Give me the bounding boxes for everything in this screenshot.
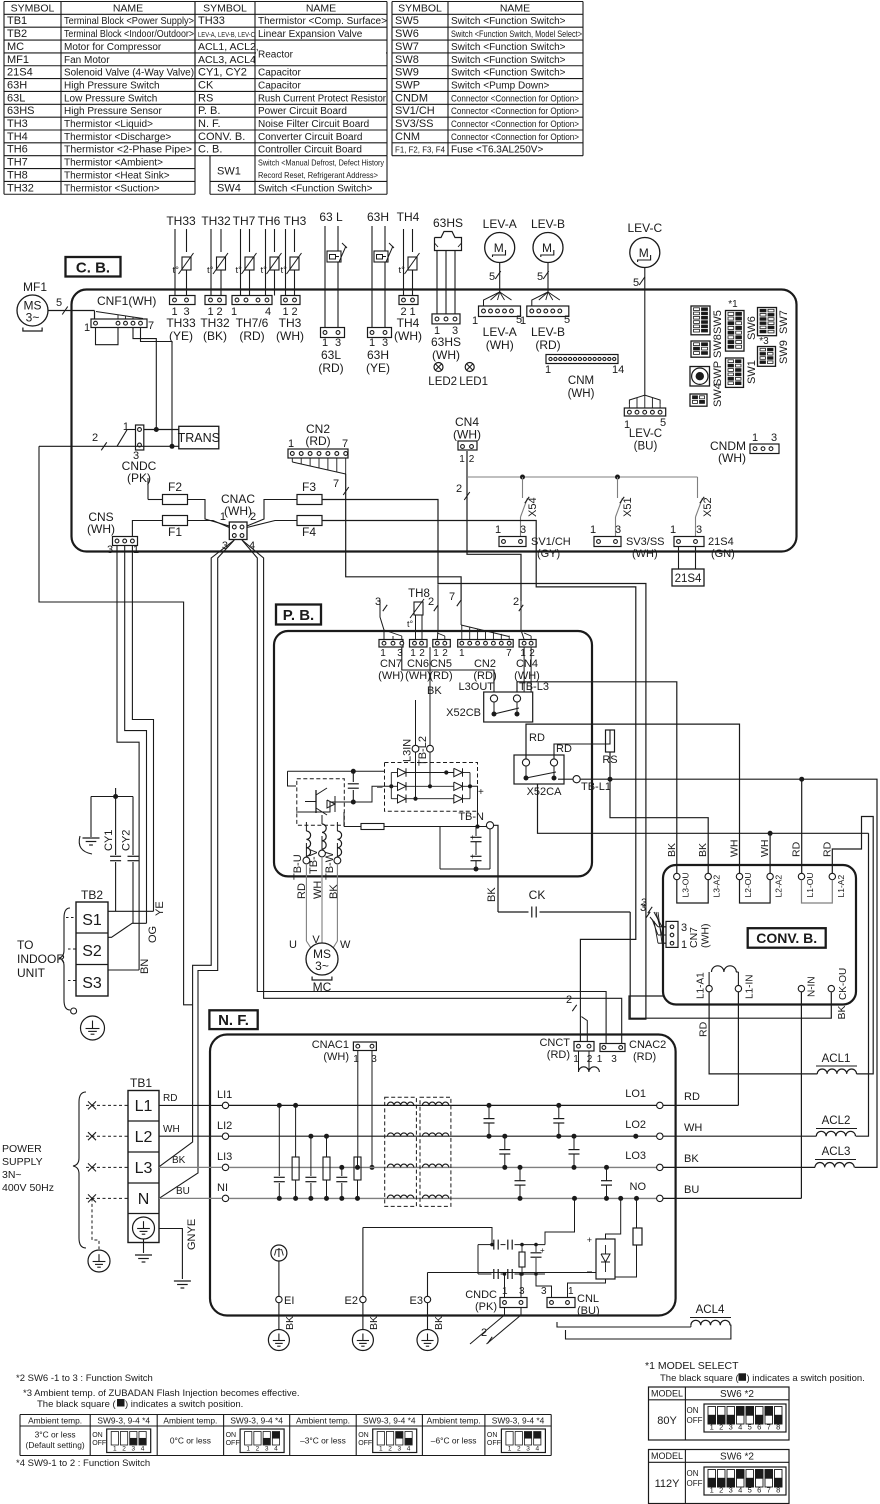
svg-text:3: 3 [615,524,621,536]
svg-text:) indicates a switch position.: ) indicates a switch position. [747,1373,865,1384]
svg-text:1: 1 [670,524,676,536]
svg-text:Connector <Connection for Opti: Connector <Connection for Option> [451,119,579,129]
svg-text:1: 1 [590,524,596,536]
svg-text:TB2: TB2 [81,888,103,902]
terminal CK-OU [828,985,834,991]
svg-text:1: 1 [568,1286,574,1297]
svg-text:2: 2 [256,1446,260,1453]
wires CN4 P.B. to relay coil [523,647,525,692]
svg-text:WH: WH [759,840,771,858]
svg-text:(YE): (YE) [169,329,193,343]
svg-text:t°: t° [281,265,288,276]
svg-text:3~: 3~ [315,959,329,973]
svg-text:CK-OU: CK-OU [838,968,849,1000]
svg-text:Noise Filter Circuit Board: Noise Filter Circuit Board [258,119,369,130]
junction dots NF right [633,1134,638,1139]
N.F. board outline [210,1035,676,1316]
svg-text:(WH): (WH) [224,504,252,518]
svg-text:Converter Circuit Board: Converter Circuit Board [258,132,362,143]
svg-text:5: 5 [489,271,495,283]
svg-text:3: 3 [265,1446,269,1453]
svg-text:OFF: OFF [687,1479,703,1488]
wire ACL3 riser [802,779,877,1167]
svg-text:SW8: SW8 [395,54,419,66]
svg-text:7: 7 [767,1486,771,1495]
svg-text:LEV-B: LEV-B [531,217,565,231]
svg-text:SW5: SW5 [712,310,724,334]
svg-text:3: 3 [696,524,702,536]
svg-text:WH: WH [163,1124,180,1135]
wires CNDC bundle [504,1308,506,1316]
svg-text:CNAC2: CNAC2 [629,1039,666,1051]
svg-text:LI1: LI1 [217,1089,232,1101]
svg-text:RD: RD [529,732,545,744]
common mode choke 2 [420,1097,451,1206]
svg-text:3: 3 [611,1054,617,1065]
svg-text:X52CA: X52CA [527,786,563,798]
svg-text:BK: BK [666,843,678,857]
svg-text:SW7: SW7 [395,41,419,53]
svg-text:(BU): (BU) [577,1305,600,1317]
svg-text:MF1: MF1 [7,54,29,66]
svg-text:BK: BK [328,884,340,899]
relay contact X54 [522,477,524,498]
svg-text:E3: E3 [410,1295,423,1307]
svg-text:3: 3 [640,902,646,914]
svg-text:TB-L3: TB-L3 [519,681,549,693]
common mode choke 1 [385,1097,417,1206]
svg-text:N. F.: N. F. [198,118,221,130]
svg-text:63 L: 63 L [319,210,343,224]
svg-text:SW5: SW5 [395,15,419,27]
svg-text:L1: L1 [135,1098,153,1115]
svg-text:TB-U: TB-U [292,854,304,880]
terminal L2-OU [736,873,742,879]
svg-text:CN7: CN7 [380,658,402,670]
svg-text:L3-OU: L3-OU [680,872,690,897]
wire 2-core to CNDC [39,445,179,447]
svg-text:(Default setting): (Default setting) [26,1440,85,1450]
svg-text:TH8: TH8 [408,588,430,600]
wire L1-A1 to ACL1 [709,992,817,1074]
svg-text:NO: NO [630,1181,647,1193]
svg-text:Solenoid Valve (4-Way Valve): Solenoid Valve (4-Way Valve) [64,68,194,79]
line LI2 [229,1135,657,1137]
ground TB2 [71,1008,77,1014]
svg-text:OFF: OFF [226,1440,240,1447]
svg-text:(RD): (RD) [305,434,330,448]
svg-text:CK: CK [529,888,546,902]
wires S1 S2 S3 [108,910,154,912]
svg-text:BK: BK [368,1316,380,1330]
svg-text:TB1: TB1 [7,15,27,27]
svg-text:1: 1 [472,315,478,327]
svg-text:SYMBOL: SYMBOL [11,2,55,14]
svg-text:SW9-3, 9-4 *4: SW9-3, 9-4 *4 [492,1415,545,1425]
wire CY common [91,796,133,798]
svg-text:0°C or less: 0°C or less [170,1436,211,1446]
svg-text:(RD): (RD) [429,670,452,682]
svg-text:TB-W: TB-W [324,851,336,880]
svg-text:Linear Expansion Valve: Linear Expansion Valve [258,29,363,40]
svg-text:CN2: CN2 [474,658,496,670]
thermistor TH6 symbol [265,229,267,296]
svg-text:CNF1(WH): CNF1(WH) [97,294,156,308]
terminal N-IN [798,985,804,991]
svg-text:TB2: TB2 [7,28,27,40]
dip switch SW8 [691,341,710,357]
svg-text:F2: F2 [168,480,182,494]
svg-text:2: 2 [388,1446,392,1453]
svg-text:–: – [587,1266,592,1276]
svg-text:(BU): (BU) [634,441,658,453]
resistor to NO [633,1228,642,1245]
circuit breaker contacts [86,1104,128,1106]
svg-text:SW9: SW9 [395,67,419,79]
svg-text:1: 1 [508,1446,512,1453]
fuse F4 [297,516,322,526]
svg-text:TH3: TH3 [284,214,307,228]
svg-text:WH: WH [729,840,741,858]
svg-text:400V 50Hz: 400V 50Hz [2,1182,54,1194]
svg-text:(PK): (PK) [475,1301,497,1313]
svg-text:Switch <Function Switch>: Switch <Function Switch> [451,55,566,66]
svg-text:3: 3 [771,432,777,444]
svg-text:1: 1 [459,454,465,465]
svg-text:6: 6 [757,1423,761,1432]
svg-text:1: 1 [353,1054,359,1065]
svg-text:CY2: CY2 [121,830,133,851]
svg-text:RS: RS [198,92,213,104]
svg-text:6: 6 [757,1486,761,1495]
svg-text:(WH): (WH) [405,670,431,682]
svg-text:2: 2 [719,1423,723,1432]
C.B. board outline [72,290,797,552]
terminal EI [278,1261,280,1296]
svg-text:ON: ON [358,1432,369,1439]
connector CN6 on P.B. [410,640,428,648]
wire ACL4 return [566,1325,731,1339]
dip switch SW1 [726,358,744,387]
svg-text:4: 4 [141,1446,145,1453]
svg-text:BU: BU [176,1186,190,1197]
svg-text:LI2: LI2 [217,1120,232,1132]
svg-text:TH33: TH33 [198,15,225,27]
svg-text:Record Reset, Refrigerant Addr: Record Reset, Refrigerant Address> [258,171,378,180]
thermistor TH33 symbol [174,229,176,296]
svg-text:t°: t° [173,265,180,276]
svg-text:SW6 *2: SW6 *2 [720,1389,754,1400]
svg-text:3: 3 [526,1446,530,1453]
svg-text:Thermistor <Ambient>: Thermistor <Ambient> [64,158,163,169]
terminal L1-IN [735,985,741,991]
svg-text:(YE): (YE) [366,361,390,375]
svg-text:1: 1 [495,524,501,536]
svg-text:LEV-B: LEV-B [531,325,565,339]
svg-text:CONV. B.: CONV. B. [198,131,245,143]
svg-text:Switch <Function Switch, Model: Switch <Function Switch, Model Select> [451,29,582,39]
svg-text:2: 2 [566,994,572,1006]
svg-text:CNL: CNL [577,1293,599,1305]
svg-text:LED1: LED1 [459,376,488,388]
wire ACL1 to L1-A2 [832,817,873,1074]
svg-text:Low Pressure Switch: Low Pressure Switch [64,93,157,104]
svg-text:(WH): (WH) [700,924,712,949]
svg-text:TB-L1: TB-L1 [581,781,611,793]
svg-text:NAME: NAME [113,2,143,14]
wires CNS to TB2 [132,546,153,912]
svg-text:5: 5 [537,271,543,283]
connector CN2 on P.B. [458,640,514,648]
ground E3 [427,1303,429,1330]
svg-text:ACL1: ACL1 [822,1053,851,1065]
svg-text:MODEL: MODEL [651,1389,683,1399]
svg-text:OFF: OFF [358,1440,372,1447]
svg-text:TH3: TH3 [7,118,28,130]
svg-text:F1, F2, F3, F4: F1, F2, F3, F4 [395,146,446,155]
svg-text:LO1: LO1 [625,1088,646,1100]
svg-text:F4: F4 [302,525,316,539]
svg-text:TB-N: TB-N [458,811,484,823]
svg-text:63L: 63L [321,348,341,362]
LED2 [434,363,443,372]
capacitor main [352,771,354,782]
svg-text:+: + [587,1235,592,1245]
svg-text:SW6: SW6 [395,28,419,40]
svg-text:ON: ON [487,1432,498,1439]
wire LO3 to ACL3 [663,1166,815,1168]
svg-text:SW9-3, 9-4 *4: SW9-3, 9-4 *4 [230,1415,283,1425]
svg-text:Switch <Pump Down>: Switch <Pump Down> [451,80,550,91]
thermistor TH7 symbol [240,229,242,296]
LED1 [465,363,474,372]
wires CNAC pins 3-4 to CNAC2 [242,540,606,1044]
svg-text:TH8: TH8 [7,169,28,181]
svg-text:7: 7 [148,320,154,332]
connector LEV-C(BU) [624,408,665,416]
svg-text:L1-IN: L1-IN [745,975,756,999]
svg-text:ON: ON [226,1432,237,1439]
svg-text:P. B.: P. B. [198,105,220,117]
svg-text:ON: ON [687,1469,699,1478]
svg-text:7: 7 [506,648,512,659]
P.B. label [276,605,321,625]
svg-text:Controller Circuit Board: Controller Circuit Board [258,145,362,156]
svg-text:Thermistor <Heat Sink>: Thermistor <Heat Sink> [64,170,170,181]
dip switch SW4 [690,394,707,406]
svg-text:BK: BK [433,1316,445,1330]
wires CNF1 to TRANS area [96,328,119,345]
svg-text:1: 1 [133,544,139,556]
svg-text:(WH): (WH) [323,1051,349,1063]
svg-text:3: 3 [681,922,687,934]
svg-text:7: 7 [767,1423,771,1432]
svg-text:63HS: 63HS [431,335,461,349]
svg-text:3N~: 3N~ [2,1169,22,1181]
svg-text:N: N [138,1191,150,1208]
resistor on negative rail [361,824,384,830]
svg-text:–: – [377,782,383,793]
wires CNAC pins 3-4 to TB1 [159,540,234,1167]
svg-text:N-IN: N-IN [807,976,818,997]
svg-text:1: 1 [545,364,551,376]
brace TB2 [59,908,70,1010]
svg-text:TH4: TH4 [397,316,420,330]
svg-text:F1: F1 [168,525,182,539]
svg-text:*3: *3 [759,336,769,347]
connector TH3(WH) [281,296,300,305]
svg-text:LEV-A: LEV-A [483,217,517,231]
wire LO2 to ACL2 [663,1135,816,1137]
svg-text:2: 2 [719,1486,723,1495]
svg-text:1: 1 [459,648,465,659]
ground E2 [362,1303,364,1330]
svg-text:(WH): (WH) [718,451,746,465]
svg-text:+: + [478,787,484,798]
svg-text:2: 2 [469,454,475,465]
solenoid valve 21S4 box [678,547,680,570]
terminal pair bracket L2 [740,880,771,903]
svg-text:(WH): (WH) [632,548,658,560]
ground below TB1 [143,1239,145,1253]
svg-text:4: 4 [407,1446,411,1453]
symbol table column 2 [195,1,387,3]
svg-text:Ambient temp.: Ambient temp. [163,1415,217,1425]
svg-text:5: 5 [748,1486,752,1495]
svg-text:SV1/CH: SV1/CH [395,105,435,117]
svg-text:U: U [289,939,297,951]
svg-text:NAME: NAME [306,2,336,14]
thermistor TH3 symbol [285,229,287,296]
connector 63L(RD) [321,328,345,338]
terminal L1-OU [798,873,804,879]
svg-text:1: 1 [288,438,294,450]
svg-text:Power Circuit Board: Power Circuit Board [258,106,347,117]
svg-text:L2-A2: L2-A2 [774,875,784,898]
thermistor TH32 symbol [210,229,212,296]
svg-text:RD: RD [556,743,572,755]
svg-text:1: 1 [379,1446,383,1453]
svg-text:(PK): (PK) [127,471,151,485]
svg-text:Thermistor <Liquid>: Thermistor <Liquid> [64,119,153,130]
svg-text:*4 SW9-1 to 2 : Function Swit: *4 SW9-1 to 2 : Function Switch [16,1458,150,1469]
svg-text:14: 14 [612,364,624,376]
svg-text:L1-A2: L1-A2 [836,875,846,898]
svg-text:Switch <Function Switch>: Switch <Function Switch> [451,42,566,53]
svg-text:ON: ON [92,1432,103,1439]
CONV.B. board outline [663,865,856,1005]
svg-text:SWP: SWP [395,79,420,91]
svg-text:SW4: SW4 [712,383,724,407]
svg-text:CNM: CNM [568,375,594,387]
svg-text:CN5: CN5 [430,658,452,670]
svg-text:CNM: CNM [395,131,420,143]
capacitors near TB-N [475,830,477,836]
svg-text:LO3: LO3 [625,1150,646,1162]
svg-text:Switch <Function Switch>: Switch <Function Switch> [451,16,566,27]
svg-text:(WH): (WH) [87,522,115,536]
svg-text:LO2: LO2 [625,1119,646,1131]
wire TB-L3 to L3-OU [517,682,677,874]
external ground circle [88,1250,110,1272]
svg-text:LED2: LED2 [428,376,457,388]
svg-text:RD: RD [684,1091,700,1103]
svg-text:ACL2: ACL2 [822,1115,851,1127]
diode bridge [385,763,478,812]
svg-text:High Pressure Sensor: High Pressure Sensor [64,106,162,117]
svg-text:80Y: 80Y [657,1415,677,1427]
svg-text:Ambient temp.: Ambient temp. [28,1415,82,1425]
svg-text:3: 3 [107,544,113,556]
ambient temp table [20,1414,551,1416]
svg-text:Switch <Function Switch>: Switch <Function Switch> [451,68,566,79]
svg-text:RD: RD [821,841,833,857]
svg-text:TH32: TH32 [200,316,230,330]
svg-text:SWP: SWP [712,361,724,386]
svg-text:21S4: 21S4 [675,573,702,585]
svg-text:2: 2 [587,1054,593,1065]
svg-text:7: 7 [449,591,455,603]
svg-text:SV1/CH: SV1/CH [531,536,571,548]
svg-text:L3OUT: L3OUT [459,681,495,693]
relay contact X52 [697,477,699,498]
svg-text:Switch <Function Switch>: Switch <Function Switch> [258,183,373,194]
svg-text:POWER: POWER [2,1143,42,1155]
svg-text:–3°C or less: –3°C or less [300,1436,346,1446]
svg-text:S1: S1 [82,912,102,929]
connector TH32(BK) [205,296,226,305]
svg-text:(GN): (GN) [711,548,735,560]
wires fuses and CNAC [148,499,163,501]
wire GNYE to earth [159,1229,182,1280]
svg-text:Connector <Connection for Opti: Connector <Connection for Option> [451,132,579,142]
svg-text:BK: BK [486,887,498,902]
P.B. internal rails [288,770,354,772]
varistor diode block [596,1239,615,1279]
svg-text:1: 1 [84,322,90,334]
brace power supply [73,1092,86,1248]
svg-text:CNDM: CNDM [395,92,428,104]
svg-text:Connector <Connection for Opti: Connector <Connection for Option> [451,106,579,116]
terminal L1-A2 [829,873,835,879]
svg-text:2: 2 [513,596,519,608]
svg-text:BU: BU [684,1184,699,1196]
svg-text:5: 5 [633,277,639,289]
svg-text:SW7: SW7 [778,310,790,334]
fuse F1 [163,516,188,526]
svg-text:TH33: TH33 [166,316,196,330]
svg-text:X54: X54 [527,497,539,517]
svg-text:YE: YE [154,901,166,916]
P.B. board outline [274,631,592,876]
symbol table column 3 [392,1,583,3]
svg-text:4: 4 [738,1423,742,1432]
svg-text:SV3/SS: SV3/SS [395,118,434,130]
fan motor symbol in N.F. [271,1245,287,1261]
snubber network [545,1198,575,1244]
svg-text:63H: 63H [367,210,389,224]
svg-text:63L: 63L [7,92,25,104]
svg-text:LEV-A, LEV-B, LEV-C: LEV-A, LEV-B, LEV-C [198,32,255,39]
svg-text:WH: WH [684,1122,702,1134]
svg-text:*3 Ambient temp. of ZUBADAN F: *3 Ambient temp. of ZUBADAN Flash Inject… [23,1388,300,1399]
svg-text:M: M [494,241,504,255]
svg-text:Fuse <T6.3AL250V>: Fuse <T6.3AL250V> [451,145,543,156]
svg-text:(BK): (BK) [203,329,227,343]
svg-text:3: 3 [520,524,526,536]
connector TH33(YE) [170,296,196,305]
svg-text:BK: BK [172,1155,186,1166]
